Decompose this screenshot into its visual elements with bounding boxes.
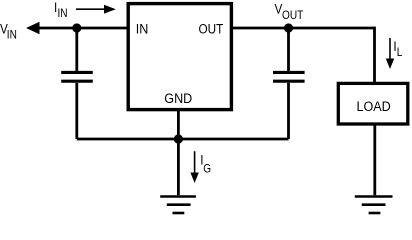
arrow I_G (points down) [190,151,198,183]
svg-text:IN: IN [58,7,68,20]
capacitor C1 (input) [61,28,93,139]
arrow I_IN (points right) [76,5,116,14]
ground (center) [160,197,196,214]
svg-text:LOAD: LOAD [357,98,391,114]
svg-text:GND: GND [164,90,192,106]
svg-text:OUT: OUT [282,9,303,22]
wire: load to ground [373,124,376,195]
ground (load) [355,197,393,214]
node ground junction [174,134,183,143]
label I_IN [54,0,68,20]
wire: drop to load [373,27,376,84]
svg-text:IN: IN [136,21,149,37]
node input junction [72,23,81,32]
svg-text:IN: IN [7,29,17,42]
regulator box U1 [128,4,231,110]
arrowhead V_IN (points left) [26,22,40,34]
wire: top rail output side [231,27,375,30]
wire: GND pin [177,110,180,140]
node output junction [284,23,293,32]
wire: bottom rail [77,138,289,141]
label V_IN [0,20,17,41]
label V_OUT [275,1,304,22]
capacitor C2 (output) [273,28,305,139]
label I_L [393,38,402,59]
load box [338,83,408,124]
arrow I_L (points down) [386,38,394,69]
wire: junction to ground [177,139,180,195]
label I_G [200,151,211,175]
wire: top rail input side [36,27,129,30]
svg-text:OUT: OUT [199,20,224,36]
svg-text:G: G [203,163,211,176]
svg-text:L: L [397,46,403,59]
